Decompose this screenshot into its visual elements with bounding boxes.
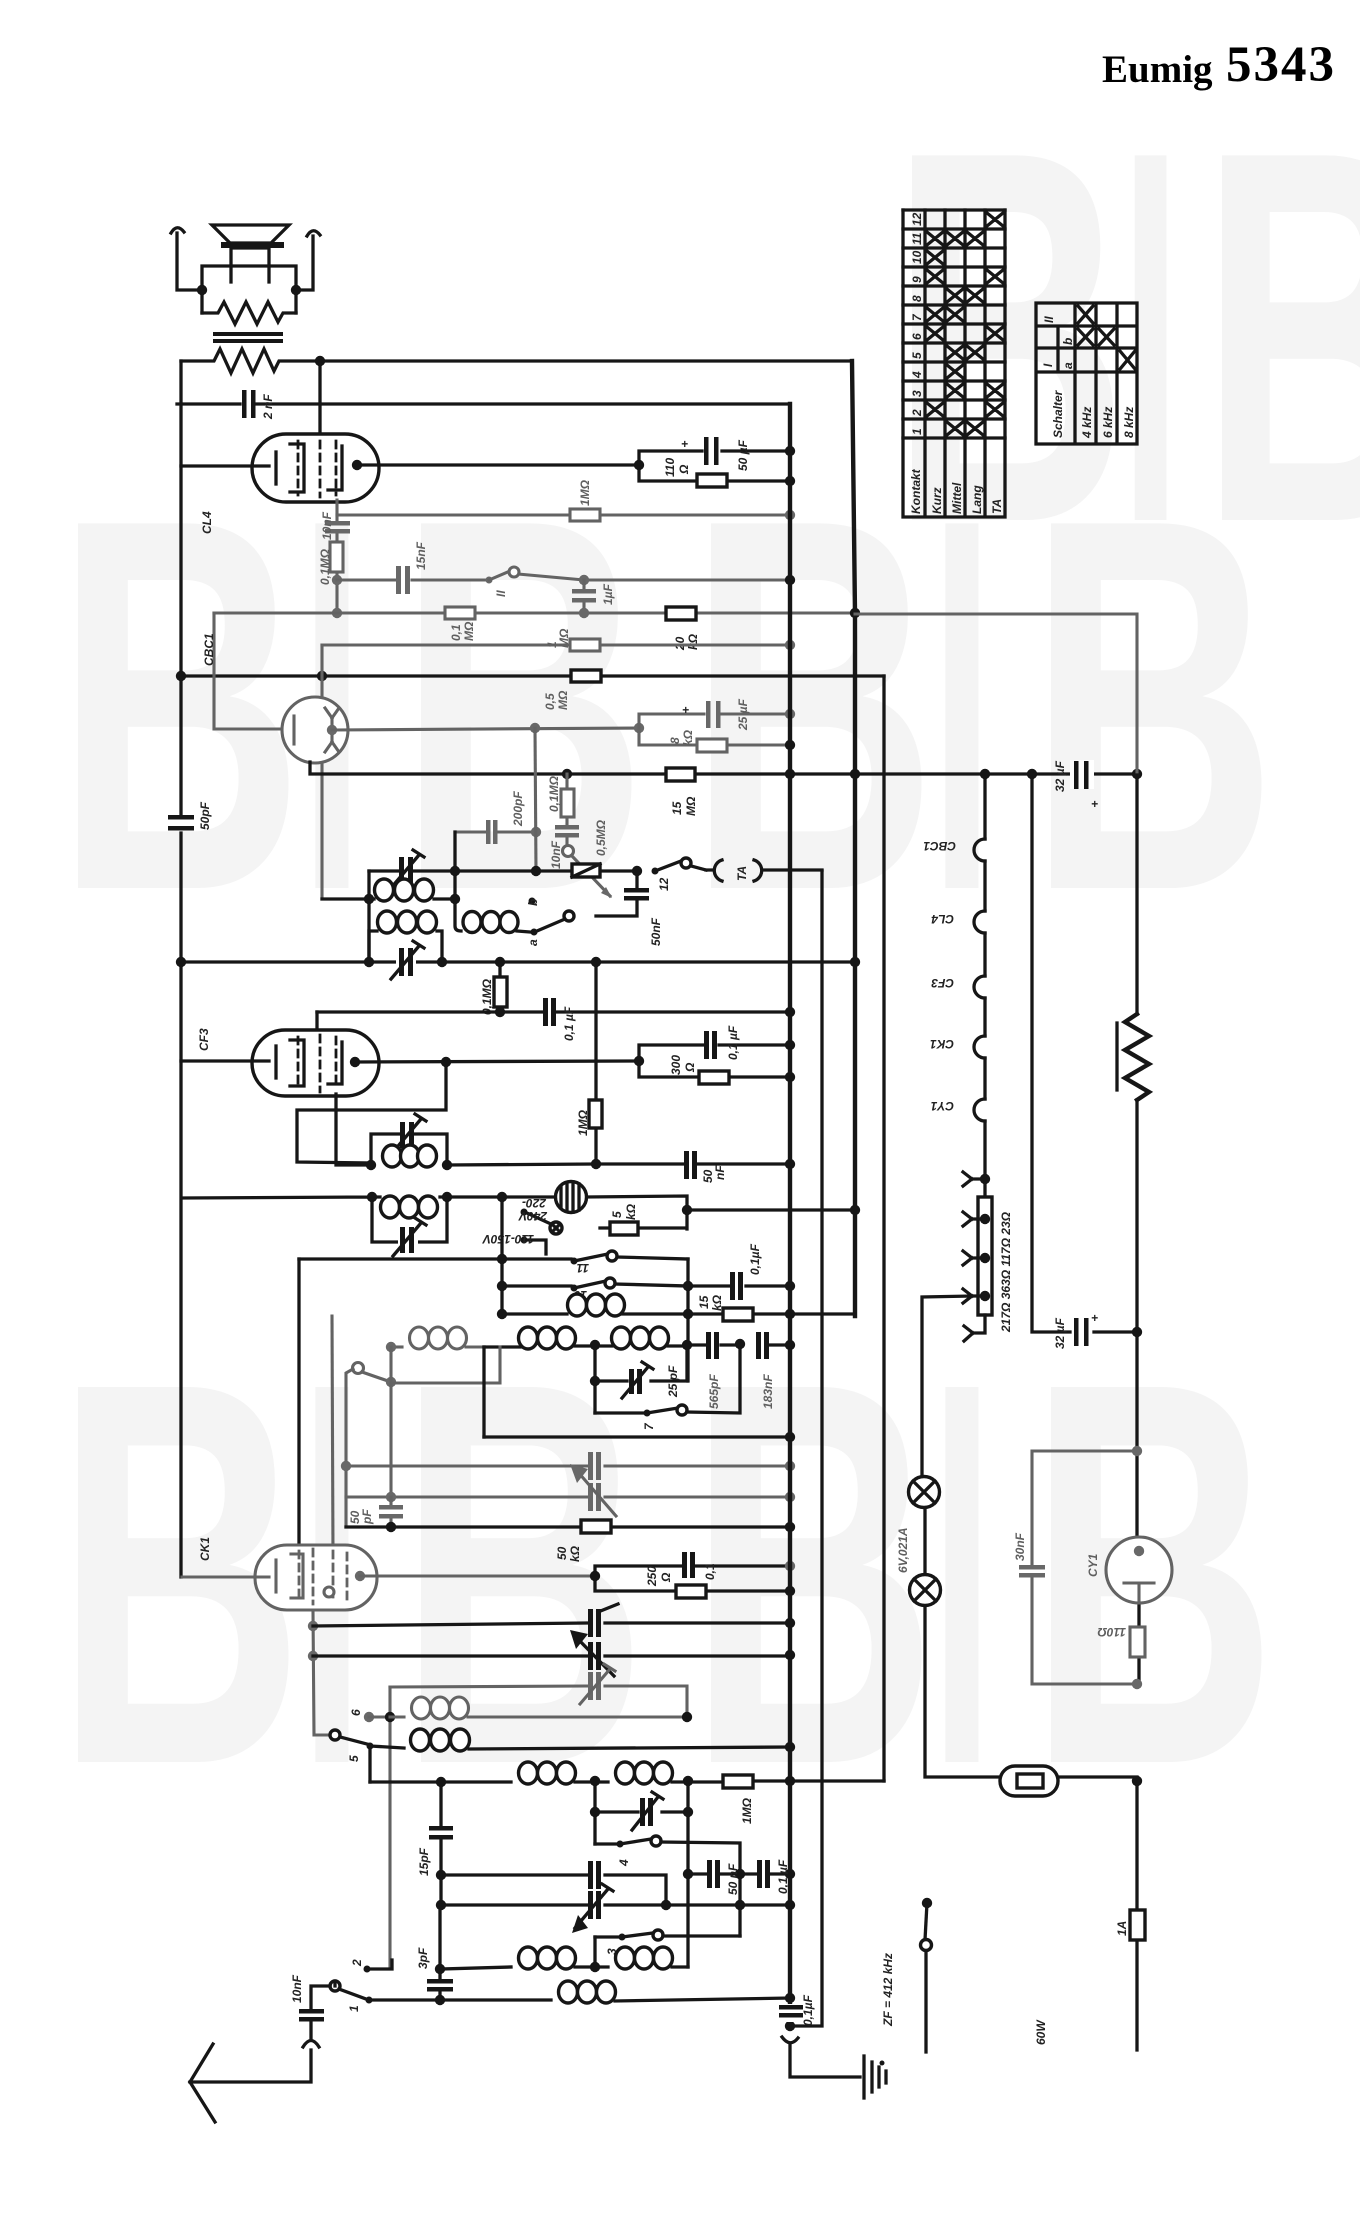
svg-text:6 kHz: 6 kHz — [1101, 407, 1115, 438]
trimmer on pot line — [399, 857, 404, 885]
svg-text:CBC1: CBC1 — [923, 839, 956, 853]
switch 5 — [330, 1730, 340, 1740]
svg-text:MΩ: MΩ — [462, 621, 476, 641]
svg-text:II: II — [1042, 316, 1056, 323]
wire grid line y1012 — [317, 1010, 790, 1013]
lamp 2 — [910, 1575, 941, 1606]
wire y1210 — [687, 1208, 855, 1211]
node — [1132, 1679, 1142, 1689]
wire y1527 — [346, 1525, 790, 1528]
svg-text:Ω: Ω — [683, 1062, 697, 1073]
node — [785, 1309, 795, 1319]
coil L-band2 — [519, 1327, 538, 1349]
node — [632, 866, 642, 876]
node anode-primary — [315, 356, 325, 366]
node — [682, 1205, 692, 1215]
wire heater top link y614 — [855, 614, 1137, 775]
wire x535 — [535, 728, 536, 871]
svg-text:2 nF: 2 nF — [261, 394, 275, 420]
node — [785, 740, 795, 750]
antenna coil row y1967 — [440, 1967, 511, 1969]
svg-text:110Ω: 110Ω — [1097, 1625, 1126, 1639]
coil antenna A — [519, 1947, 538, 1969]
svg-text:220-: 220- — [522, 1196, 547, 1210]
svg-text:b: b — [1061, 338, 1075, 345]
node — [495, 1007, 505, 1017]
resistor 1MOhm — [723, 1775, 753, 1788]
svg-text:1MΩ: 1MΩ — [740, 1797, 754, 1824]
tap 363 ohm — [980, 1253, 990, 1263]
node — [634, 723, 644, 733]
svg-text:240V: 240V — [518, 1209, 548, 1223]
node — [683, 1309, 693, 1319]
wire anode CBC1 — [332, 728, 639, 730]
node — [785, 575, 795, 585]
svg-text:4 kHz: 4 kHz — [1080, 407, 1094, 439]
node — [590, 1776, 600, 1786]
node — [366, 1160, 376, 1170]
wire HT bus — [788, 404, 792, 2026]
resistor 1MOhm y645 — [322, 643, 790, 646]
node — [531, 866, 541, 876]
padder trimmer y1812 — [595, 1781, 688, 1844]
grid coil row y1782 — [370, 1780, 511, 1783]
node — [785, 1492, 795, 1502]
svg-text:50nF: 50nF — [649, 917, 663, 946]
svg-text:8 kHz: 8 kHz — [1122, 407, 1136, 438]
wire x502 — [500, 1197, 503, 1314]
svg-text:nF: nF — [713, 1165, 727, 1180]
svg-text:25 pF: 25 pF — [666, 1365, 680, 1398]
heater chain x985 — [983, 774, 986, 1197]
wire y676 — [181, 674, 884, 677]
svg-text:Eumig: Eumig — [1102, 48, 1213, 91]
contact 220-240V — [521, 1209, 528, 1216]
svg-text:TA: TA — [990, 499, 1004, 514]
variable capacitor gang A — [588, 1609, 593, 1637]
svg-text:0,1: 0,1 — [703, 1563, 717, 1580]
node — [785, 1072, 795, 1082]
capacitor 15pF — [439, 1782, 442, 1875]
heater dropper resistor — [978, 1197, 992, 1315]
trimmer on y962 — [396, 948, 416, 976]
svg-text:CK1: CK1 — [930, 1037, 954, 1051]
svg-text:CF3: CF3 — [931, 976, 954, 990]
svg-text:B: B — [688, 408, 937, 1001]
node anode CK1 — [355, 1571, 365, 1581]
capacitor 0,1uF y1286 — [688, 1284, 790, 1287]
node — [450, 894, 460, 904]
resistor 5kOhm — [610, 1222, 638, 1235]
node — [785, 1522, 795, 1532]
capacitor 25uF — [706, 701, 711, 728]
speaker field coil zigzag — [202, 302, 296, 324]
node — [785, 1561, 795, 1571]
mains switch — [922, 1898, 932, 1908]
node — [176, 671, 186, 681]
svg-text:32 µF: 32 µF — [1053, 1317, 1067, 1349]
svg-text:565pF: 565pF — [707, 1374, 721, 1409]
tube CF3 — [315, 1012, 318, 1030]
node — [386, 1492, 396, 1502]
node — [785, 1432, 795, 1442]
svg-text:0,5MΩ: 0,5MΩ — [594, 819, 608, 856]
node — [442, 1160, 452, 1170]
node — [785, 1650, 795, 1660]
wire heater x1032 — [1032, 774, 1137, 1332]
svg-text:kΩ: kΩ — [568, 1545, 582, 1562]
node speaker right — [291, 285, 301, 295]
node — [442, 1192, 452, 1202]
25pF trimmer rail — [595, 1345, 687, 1413]
svg-text:CBC1: CBC1 — [202, 633, 216, 666]
osc coil y1748 — [370, 1746, 404, 1748]
node — [441, 1057, 451, 1067]
node anode CF3 — [350, 1057, 360, 1067]
svg-text:5: 5 — [910, 352, 924, 359]
bus x884 — [882, 676, 885, 1781]
wire x455 — [453, 832, 456, 899]
node — [1132, 1776, 1142, 1786]
svg-text:6V,021A: 6V,021A — [896, 1527, 910, 1573]
svg-text:6: 6 — [349, 1709, 363, 1716]
svg-text:a: a — [526, 939, 540, 946]
wire screen line gray — [337, 513, 790, 516]
lamp 1 — [909, 1477, 940, 1508]
tuning gang caps — [313, 1623, 790, 1626]
svg-text:183nF: 183nF — [761, 1374, 775, 1409]
svg-text:CY1: CY1 — [930, 1099, 954, 1113]
switch 7 — [595, 1411, 644, 1414]
wire y580 — [337, 574, 790, 580]
node — [579, 608, 589, 618]
svg-text:MΩ: MΩ — [684, 796, 698, 816]
node — [683, 1776, 693, 1786]
capacitor 3pF — [438, 1905, 441, 2000]
svg-text:Ω: Ω — [659, 1572, 673, 1583]
svg-text:kΩ: kΩ — [624, 1203, 638, 1220]
svg-text:32 µF: 32 µF — [1053, 760, 1067, 792]
node — [497, 1309, 507, 1319]
antenna input — [190, 1981, 335, 2082]
svg-text:Mittel: Mittel — [950, 482, 964, 514]
node — [1132, 769, 1142, 779]
svg-text:CL4: CL4 — [931, 912, 954, 926]
svg-text:+: + — [1091, 1311, 1098, 1325]
svg-text:15nF: 15nF — [414, 541, 428, 570]
250ohm cluster — [590, 1571, 600, 1581]
capacitor 0,1uF — [543, 998, 548, 1026]
svg-text:0,1MΩ: 0,1MΩ — [480, 978, 494, 1015]
wire y613 — [214, 611, 855, 614]
node — [364, 957, 374, 967]
node — [850, 957, 860, 967]
svg-text:5: 5 — [347, 1755, 361, 1762]
wire 10nF chain — [335, 500, 338, 613]
svg-text:+: + — [1091, 797, 1098, 811]
coil grid B — [616, 1762, 635, 1784]
node — [579, 575, 589, 585]
lamp feed — [922, 1296, 1137, 1777]
svg-text:B: B — [398, 1268, 647, 1877]
switch 3 — [595, 1935, 618, 1938]
tuning gang 1 y1466 — [346, 1464, 790, 1467]
node — [785, 1618, 795, 1628]
coil L1 — [369, 897, 374, 900]
svg-text:0,5: 0,5 — [543, 693, 557, 710]
svg-text:0,1µF: 0,1µF — [801, 1994, 815, 2026]
speaker frame — [202, 266, 296, 313]
svg-text:Lang: Lang — [970, 485, 984, 514]
capacitor 1uF — [582, 580, 585, 613]
switch 12 — [652, 868, 659, 875]
fuse holder — [1000, 1766, 1058, 1796]
rectifier CY1 — [1106, 1537, 1172, 1603]
node — [1027, 769, 1037, 779]
transformer core — [213, 332, 283, 336]
node — [683, 1281, 693, 1291]
svg-text:+: + — [682, 703, 689, 717]
svg-text:CF3: CF3 — [197, 1028, 211, 1051]
capacitor 0,1uF series — [757, 1860, 762, 1888]
gray gang y1686 — [390, 1686, 687, 1717]
node — [785, 1586, 795, 1596]
speaker neck — [231, 248, 269, 282]
resistor 110ohm — [1130, 1627, 1145, 1657]
svg-text:Ω: Ω — [677, 464, 691, 475]
resistor 8kOhm — [697, 739, 727, 752]
svg-text:MΩ: MΩ — [557, 628, 571, 648]
svg-text:1: 1 — [910, 428, 924, 435]
node — [332, 575, 342, 585]
node anode CBC1 — [327, 725, 337, 735]
svg-text:kΩ: kΩ — [681, 729, 695, 746]
wire x214 — [214, 613, 283, 729]
node — [785, 510, 795, 520]
IF2 transformer top LC — [371, 1134, 447, 1165]
svg-text:CY1: CY1 — [1086, 1553, 1100, 1577]
node — [634, 1056, 644, 1066]
jack TA — [706, 868, 822, 871]
resistor 0,1MOhm vertical + 10nF to pot — [565, 774, 568, 845]
tube CBC1 — [282, 697, 348, 763]
node — [495, 957, 505, 967]
node speaker left — [197, 285, 207, 295]
svg-text:pF: pF — [360, 1509, 374, 1525]
svg-text:MΩ: MΩ — [556, 690, 570, 710]
speaker cone — [212, 225, 289, 243]
node — [785, 1281, 795, 1291]
coil L3 lower — [369, 931, 442, 962]
contact table Kontakt/Kurz/Mittel/Lang/TA — [903, 210, 1005, 517]
wire x688 — [686, 1259, 689, 1381]
resistor 50kOhm — [581, 1520, 611, 1533]
switch a b — [564, 911, 574, 921]
node — [785, 709, 795, 719]
svg-text:50 nF: 50 nF — [726, 1863, 740, 1895]
svg-text:8: 8 — [910, 295, 924, 302]
node — [530, 723, 540, 733]
wire x391 — [389, 1347, 392, 1496]
choke row y1314 — [502, 1314, 855, 1316]
svg-text:Kontakt: Kontakt — [909, 468, 923, 514]
svg-text:110: 110 — [663, 458, 677, 477]
svg-text:0,1 µF: 0,1 µF — [562, 1006, 576, 1041]
coil antenna B — [616, 1947, 635, 1969]
switch 10 — [502, 1284, 688, 1286]
resistor 15kOhm — [723, 1308, 753, 1321]
svg-text:200pF: 200pF — [511, 791, 525, 827]
svg-text:II: II — [494, 590, 508, 597]
capacitor 50nF — [684, 1151, 689, 1179]
wire anode CF3 — [355, 1061, 639, 1062]
speaker coil bar — [221, 242, 284, 248]
resistor 20kOhm — [666, 607, 696, 620]
svg-text:2: 2 — [350, 1959, 364, 1967]
svg-text:50 µF: 50 µF — [736, 439, 750, 471]
node — [497, 1192, 507, 1202]
svg-text:0,1 µF: 0,1 µF — [726, 1025, 740, 1060]
wire grid CL4 — [318, 361, 321, 436]
svg-text:10nF: 10nF — [549, 840, 563, 869]
capacitor 50nF series — [707, 1860, 712, 1888]
svg-text:2: 2 — [910, 409, 924, 417]
svg-text:15pF: 15pF — [417, 1847, 431, 1876]
node — [634, 460, 644, 470]
node — [591, 957, 601, 967]
svg-text:217Ω 363Ω 117Ω 23Ω: 217Ω 363Ω 117Ω 23Ω — [999, 1211, 1013, 1333]
svg-text:TA: TA — [735, 866, 749, 881]
svg-text:25 µF: 25 µF — [736, 698, 750, 731]
wire x313 screen — [313, 1610, 330, 1735]
switch II — [486, 577, 493, 584]
node — [850, 1205, 860, 1215]
svg-text:300: 300 — [669, 1055, 683, 1075]
node — [437, 957, 447, 967]
svg-text:0,1MΩ: 0,1MΩ — [318, 548, 332, 585]
node — [317, 671, 327, 681]
svg-text:1MΩ: 1MΩ — [578, 479, 592, 506]
coil row y1346 — [391, 1345, 402, 1348]
mains transformer symbol — [556, 1182, 587, 1213]
capacitor 50pF agc — [389, 1497, 392, 1527]
capacitor 15nF — [396, 566, 401, 594]
switch band gray — [353, 1363, 364, 1374]
svg-text:250: 250 — [645, 1566, 659, 1587]
antenna symbol — [190, 2044, 215, 2122]
coupling coil y2001 — [369, 1998, 551, 2001]
8k / 25uF cluster — [639, 714, 790, 745]
svg-text:1MΩ: 1MΩ — [576, 1109, 590, 1136]
svg-text:11: 11 — [576, 1261, 589, 1275]
svg-text:1: 1 — [347, 2005, 361, 2012]
mic jack / chassis — [785, 2021, 795, 2031]
svg-text:11: 11 — [910, 232, 924, 245]
node — [785, 1007, 795, 1017]
node — [176, 957, 186, 967]
svg-text:60W: 60W — [1034, 2019, 1048, 2045]
variable capacitor gang B — [588, 1642, 593, 1670]
svg-text:10: 10 — [910, 250, 924, 264]
svg-text:Kurz: Kurz — [930, 487, 944, 514]
coil L-osc gray — [410, 1327, 429, 1349]
node — [785, 1776, 795, 1786]
node — [785, 1159, 795, 1169]
svg-text:kΩ: kΩ — [710, 1294, 724, 1311]
wire left rail — [179, 361, 182, 1577]
switch 1 — [330, 1981, 340, 1991]
wire g3 — [336, 1094, 371, 1165]
node — [785, 1040, 795, 1050]
wire y1164 — [447, 1164, 790, 1165]
resistor 110 ohm — [697, 474, 727, 487]
node — [785, 640, 795, 650]
300ohm cluster — [639, 1045, 790, 1077]
resistor 15MOhm — [666, 768, 695, 781]
svg-text:4: 4 — [617, 1859, 631, 1867]
wire mains bus x1137 — [1137, 775, 1139, 1684]
svg-text:6: 6 — [910, 333, 924, 340]
node — [785, 1742, 795, 1752]
ground — [862, 2056, 865, 2098]
svg-text:ZF = 412 kHz: ZF = 412 kHz — [881, 1953, 895, 2027]
node — [591, 1159, 601, 1169]
wire x484 — [482, 1347, 485, 1437]
resistor 0,5MOhm — [571, 670, 601, 682]
capacitor 565pF — [706, 1332, 711, 1359]
capacitor 50pF — [168, 815, 194, 820]
svg-text:4: 4 — [910, 371, 924, 379]
svg-text:0,1MΩ: 0,1MΩ — [547, 775, 561, 812]
svg-text:CL4: CL4 — [200, 511, 214, 534]
node — [436, 1777, 446, 1787]
wire B+ top — [320, 359, 852, 362]
node — [850, 769, 860, 779]
wire x299 — [297, 1259, 300, 1562]
taps — [980, 1174, 990, 1184]
svg-text:5343: 5343 — [1226, 37, 1336, 93]
wire anode CL4 — [357, 463, 639, 466]
svg-text:1µF: 1µF — [601, 583, 615, 605]
svg-text:5: 5 — [610, 1211, 624, 1218]
svg-text:50pF: 50pF — [198, 801, 212, 830]
resistor 0,1MOhm grid — [498, 962, 501, 1012]
capacitor 10nF — [325, 521, 350, 526]
node — [1132, 1327, 1142, 1337]
capacitor 2nF — [242, 390, 247, 418]
potentiometer 0,5M box — [572, 864, 600, 877]
watermark letters BIBBIB — [55, 40, 1360, 1878]
svg-text:0,1: 0,1 — [449, 624, 463, 641]
tube CK1 — [255, 1545, 377, 1610]
node anode CL4 — [352, 460, 362, 470]
svg-text:50: 50 — [555, 1546, 569, 1560]
svg-text:B: B — [1028, 408, 1277, 1001]
svg-text:12: 12 — [657, 877, 671, 891]
coil IF2 bottom — [383, 1145, 402, 1167]
svg-text:9: 9 — [910, 276, 924, 283]
Schalter table — [1036, 303, 1137, 444]
capacitor 50uF — [704, 437, 709, 465]
tuning gang 2 y1497 — [346, 1495, 790, 1498]
wire AVC line y962 — [181, 960, 855, 963]
svg-text:15: 15 — [697, 1295, 711, 1309]
node — [1132, 1446, 1142, 1456]
contact 110-150V — [521, 1237, 528, 1244]
capacitor 32uF top — [1070, 760, 1094, 789]
svg-text:I: I — [930, 1268, 994, 1878]
node — [450, 866, 460, 876]
